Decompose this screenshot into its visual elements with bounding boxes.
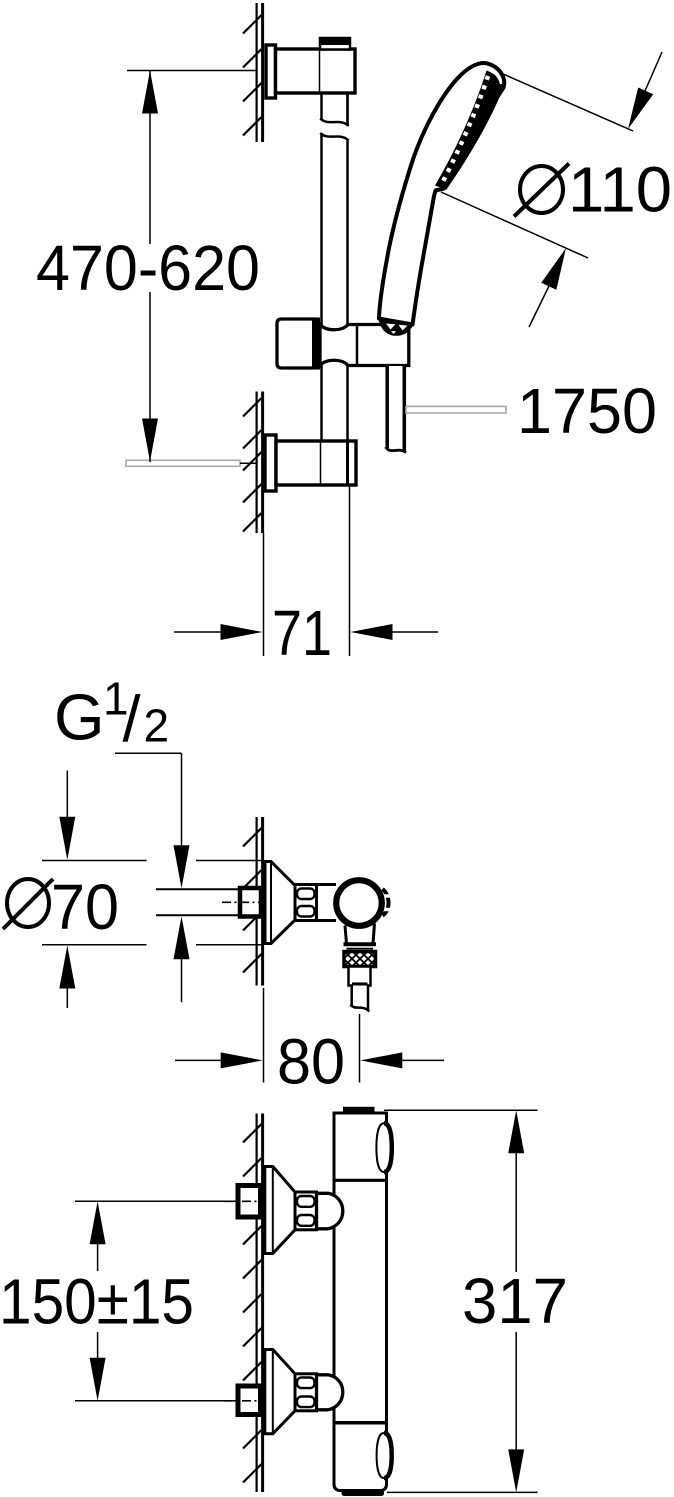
shower rail upper section with break — [320, 93, 348, 325]
glider knob — [277, 319, 316, 368]
dimension 317 extension lines — [384, 1109, 538, 1111]
hand shower outline — [379, 63, 504, 324]
dimension 150±15 arrows — [90, 1201, 106, 1401]
ball knob (middle drawing) — [336, 880, 382, 926]
supply pipe behind wall (middle drawing) — [156, 889, 241, 915]
dimension 80 arrows — [175, 1052, 444, 1068]
wall (bottom drawing) — [243, 1114, 263, 1493]
bottom wall bracket escutcheon — [265, 435, 276, 491]
top wall bracket arm — [276, 49, 356, 93]
dimension text diameter 110 — [514, 154, 672, 226]
svg-text:/: / — [123, 682, 142, 755]
shower holder cradle — [378, 317, 414, 336]
dimension 80 extension lines — [263, 988, 265, 1083]
body separation line top — [334, 1179, 387, 1182]
svg-text:G: G — [54, 681, 105, 754]
svg-text:2: 2 — [144, 700, 170, 752]
bottom union escutcheon (bottom drawing) — [265, 1350, 295, 1434]
dimension extension line top (470-620) — [127, 70, 256, 72]
wall flange block (middle drawing) — [240, 888, 261, 917]
body top cap — [343, 1107, 375, 1113]
top wall bracket escutcheon — [266, 45, 276, 98]
collar (middle drawing) — [317, 883, 337, 886]
top union square block behind wall — [238, 1186, 261, 1218]
top union centerline — [224, 1200, 263, 1202]
dimension line 470-620 with arrows — [142, 71, 158, 463]
hose connector cylinder (middle drawing) — [349, 967, 371, 986]
dimension extension lines (diameter 110) — [494, 70, 633, 131]
wall (middle drawing) — [243, 817, 263, 986]
body separation line bottom — [334, 1421, 387, 1425]
escutcheon cone (middle drawing) — [265, 862, 295, 944]
dimension text diameter 70 — [3, 871, 119, 943]
hex nut (middle drawing) — [295, 885, 317, 921]
hose (middle drawing) — [351, 986, 370, 1012]
dimension 70 arrows — [59, 771, 75, 1009]
top union escutcheon (bottom drawing) — [265, 1167, 295, 1254]
svg-text:110: 110 — [568, 154, 672, 226]
dimension 150±15 extension lines — [75, 1200, 237, 1202]
thread label G 1/2 — [54, 673, 169, 756]
bottom knob ellipse — [377, 1433, 392, 1478]
dimension 71 extension lines — [263, 533, 265, 656]
holder clip (middle drawing) — [383, 889, 391, 916]
svg-text:470-620: 470-620 — [36, 232, 260, 304]
arrow lower (diameter 110) — [529, 248, 566, 327]
hose length leader gray (1750) — [406, 406, 506, 413]
rail top cap — [320, 38, 350, 50]
top knob ellipse — [376, 1123, 391, 1172]
body bottom cap — [342, 1490, 385, 1497]
svg-text:1750: 1750 — [517, 375, 657, 447]
svg-text:317: 317 — [462, 1265, 568, 1337]
arrow upper (diameter 110) — [628, 52, 662, 129]
hand shower spray face band — [435, 71, 504, 190]
shower rail lower section — [320, 366, 323, 443]
dimension 70 extension lines — [42, 861, 263, 945]
wall (lower bracket, top drawing) — [243, 392, 263, 534]
dimension extension gray line bottom (470-620) — [126, 460, 240, 466]
pipe centerline (middle drawing) — [222, 901, 264, 903]
top union hex nut — [295, 1192, 317, 1230]
G 1/2 leader and thread dimension arrows — [115, 753, 190, 1002]
thermostat body (bottom drawing) — [334, 1113, 387, 1491]
svg-text:70: 70 — [51, 871, 119, 943]
top union dome connector — [317, 1193, 343, 1229]
svg-text:80: 80 — [277, 1025, 345, 1097]
svg-text:150±15: 150±15 — [0, 1265, 194, 1337]
shower hose (top drawing) — [386, 366, 407, 453]
dimension 71 arrows — [174, 624, 438, 640]
bottom union hex nut — [295, 1374, 317, 1411]
dimension 317 arrows — [508, 1110, 524, 1492]
hose coupling knurled nut (middle drawing) — [344, 952, 376, 967]
svg-text:71: 71 — [272, 597, 332, 669]
bottom union square block behind wall — [238, 1386, 261, 1415]
bottom union centerline — [224, 1400, 263, 1402]
bottom wall bracket arm — [276, 441, 356, 485]
bottom union dome connector — [317, 1375, 343, 1410]
wall (upper bracket, top drawing) — [243, 3, 263, 142]
outlet neck (middle drawing) — [344, 924, 377, 949]
glider body on rail — [320, 325, 409, 366]
